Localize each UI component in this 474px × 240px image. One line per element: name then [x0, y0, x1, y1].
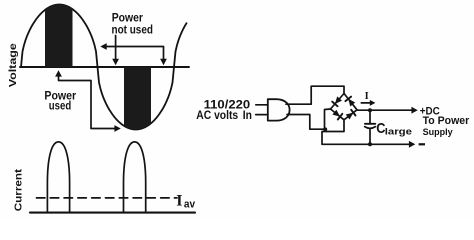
junction dot: plug wire to bridge — [323, 127, 327, 131]
svg-text:I: I — [176, 193, 182, 210]
svg-text:I: I — [365, 91, 369, 102]
Iav dashed level line — [37, 197, 178, 199]
svg-text:To Power: To Power — [423, 115, 470, 127]
arrowhead: I arrow — [370, 100, 376, 106]
arrowhead: power not used left arrow — [100, 43, 106, 50]
arrowhead: power not used down arrow 2 — [160, 59, 167, 65]
dark area: power used (positive lobe) — [45, 5, 73, 68]
arrowhead: minus DC output — [409, 141, 415, 148]
dark area: power used (negative lobe) — [124, 67, 151, 130]
svg-text:av: av — [184, 198, 195, 211]
svg-text:not used: not used — [112, 24, 153, 37]
capacitor Clarge bottom lead — [369, 129, 371, 144]
diode D3 cathode bar — [338, 114, 343, 120]
diode D2 (top-right) — [348, 99, 355, 107]
power-used arrow elbow — [59, 75, 117, 129]
current I arrow line — [361, 102, 371, 104]
current pulse 2 — [124, 142, 146, 212]
junction dot: cap top — [368, 108, 372, 112]
diode D1 (top-left) — [335, 96, 342, 104]
capacitor Clarge top lead — [369, 110, 371, 123]
wire: minus rail — [322, 143, 411, 145]
diode D2 cathode bar — [345, 97, 351, 102]
arrowhead: power not used down arrow 1 — [112, 59, 119, 65]
arrowhead: plus DC output — [411, 107, 417, 114]
arrowhead: power used up arrow — [55, 70, 62, 76]
AC plug body — [268, 99, 290, 120]
plug prong 1 — [256, 104, 268, 106]
capacitor Clarge top plate — [365, 123, 375, 125]
diode D3 (bottom-left) — [332, 110, 340, 117]
current axis — [30, 212, 195, 214]
diode D4 cathode bar — [351, 110, 355, 116]
capacitor Clarge bottom plate — [365, 127, 376, 129]
minus sign — [419, 143, 425, 145]
svg-text:used: used — [49, 100, 71, 113]
wire: plug top to bridge top vertex — [286, 86, 344, 104]
arrowhead: power used right arrow — [114, 125, 120, 132]
wire: plug bottom to junction — [287, 115, 325, 130]
wire: plus rail — [357, 109, 414, 111]
svg-text:Current: Current — [13, 169, 24, 212]
svg-text:Supply: Supply — [423, 127, 453, 137]
svg-text:Voltage: Voltage — [8, 43, 19, 87]
plug prong 2 — [256, 114, 268, 116]
bridge diamond — [331, 94, 358, 120]
power-not-used horizontal arrow line — [105, 47, 164, 61]
current pulse 1 — [47, 142, 69, 212]
power-not-used vertical arrow line — [115, 36, 117, 61]
junction dot: cap bottom — [368, 142, 372, 146]
wire: bridge bottom vertex to minus rail — [322, 120, 344, 144]
svg-text:AC volts In: AC volts In — [196, 109, 252, 122]
wire: bridge left vertex down to junction — [325, 109, 331, 129]
svg-text:large: large — [385, 127, 413, 137]
diode D1 cathode bar — [332, 102, 337, 107]
voltage axis — [20, 66, 189, 68]
diode D4 (bottom-right) — [346, 113, 354, 120]
sine wave — [21, 5, 187, 130]
